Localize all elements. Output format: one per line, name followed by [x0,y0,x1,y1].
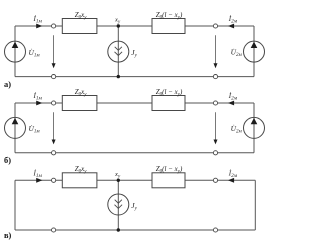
wire right rail [254,180,256,230]
source U1m (а) [5,41,41,62]
wire top-left segment [15,25,62,27]
node xy junction top (а) [117,24,120,27]
source U2m (б) [231,117,265,138]
terminal port2 bottom (а) [213,75,217,79]
wire between boxes [97,102,152,104]
terminal port1 top (в) [52,178,56,182]
wire middle branch [117,26,119,77]
wire bottom [15,229,255,231]
current source Jy (а) [108,41,138,62]
impedance box Z0xy (б) [62,88,97,111]
terminal port1 bottom (б) [52,151,56,155]
wire left rail [14,180,16,230]
wire top-right segment [185,25,254,27]
terminal port1 bottom (в) [52,228,56,232]
source U2m (а) [231,41,265,62]
node xy junction top (в) [117,179,120,182]
impedance box Z0xy (в) [62,165,97,188]
voltage arrow port1 (а) [52,35,56,68]
current arrow I2m (в) [228,169,238,182]
terminal port2 top (б) [213,101,217,105]
wire between boxes [97,179,152,181]
wire bottom [15,152,254,154]
wire right rail [253,26,255,77]
impedance box Z0(l-xy) (б) [152,88,185,111]
current arrow I2m (б) [228,92,238,105]
wire middle branch [117,180,119,230]
wire top-right segment [185,102,254,104]
terminal port1 top (б) [52,101,56,105]
wire left rail [14,26,16,77]
svg-text:в): в) [4,231,12,240]
terminal port1 bottom (а) [52,75,56,79]
voltage arrow port1 (б) [52,112,56,144]
voltage arrow port2 (а) [214,35,218,68]
terminal port2 bottom (в) [213,228,217,232]
current arrow I2m (а) [228,15,238,28]
svg-text:б): б) [4,156,11,165]
node junction bottom (а) [117,75,120,78]
current source Jy (в) [108,194,138,215]
impedance box Z0xy (а) [62,11,97,34]
terminal port2 top (в) [213,178,217,182]
svg-text:а): а) [4,80,11,89]
current arrow I1m (б) [33,92,43,105]
wire right rail [253,103,255,153]
current arrow I1m (а) [33,15,43,28]
current arrow I1m (в) [33,169,43,182]
wire top-left segment [15,102,62,104]
impedance box Z0(l-xy) (в) [152,165,185,188]
terminal port2 top (а) [213,24,217,28]
wire top-right segment [185,179,255,181]
impedance box Z0(l-xy) (а) [152,11,185,34]
voltage arrow port2 (б) [214,112,218,144]
wire top-left segment [15,179,62,181]
terminal port1 top (а) [52,24,56,28]
terminal port2 bottom (б) [213,151,217,155]
wire bottom [15,76,254,78]
source U1m (б) [5,117,41,138]
wire between boxes [97,25,152,27]
wire left rail [14,103,16,153]
node junction bottom (в) [117,228,120,231]
